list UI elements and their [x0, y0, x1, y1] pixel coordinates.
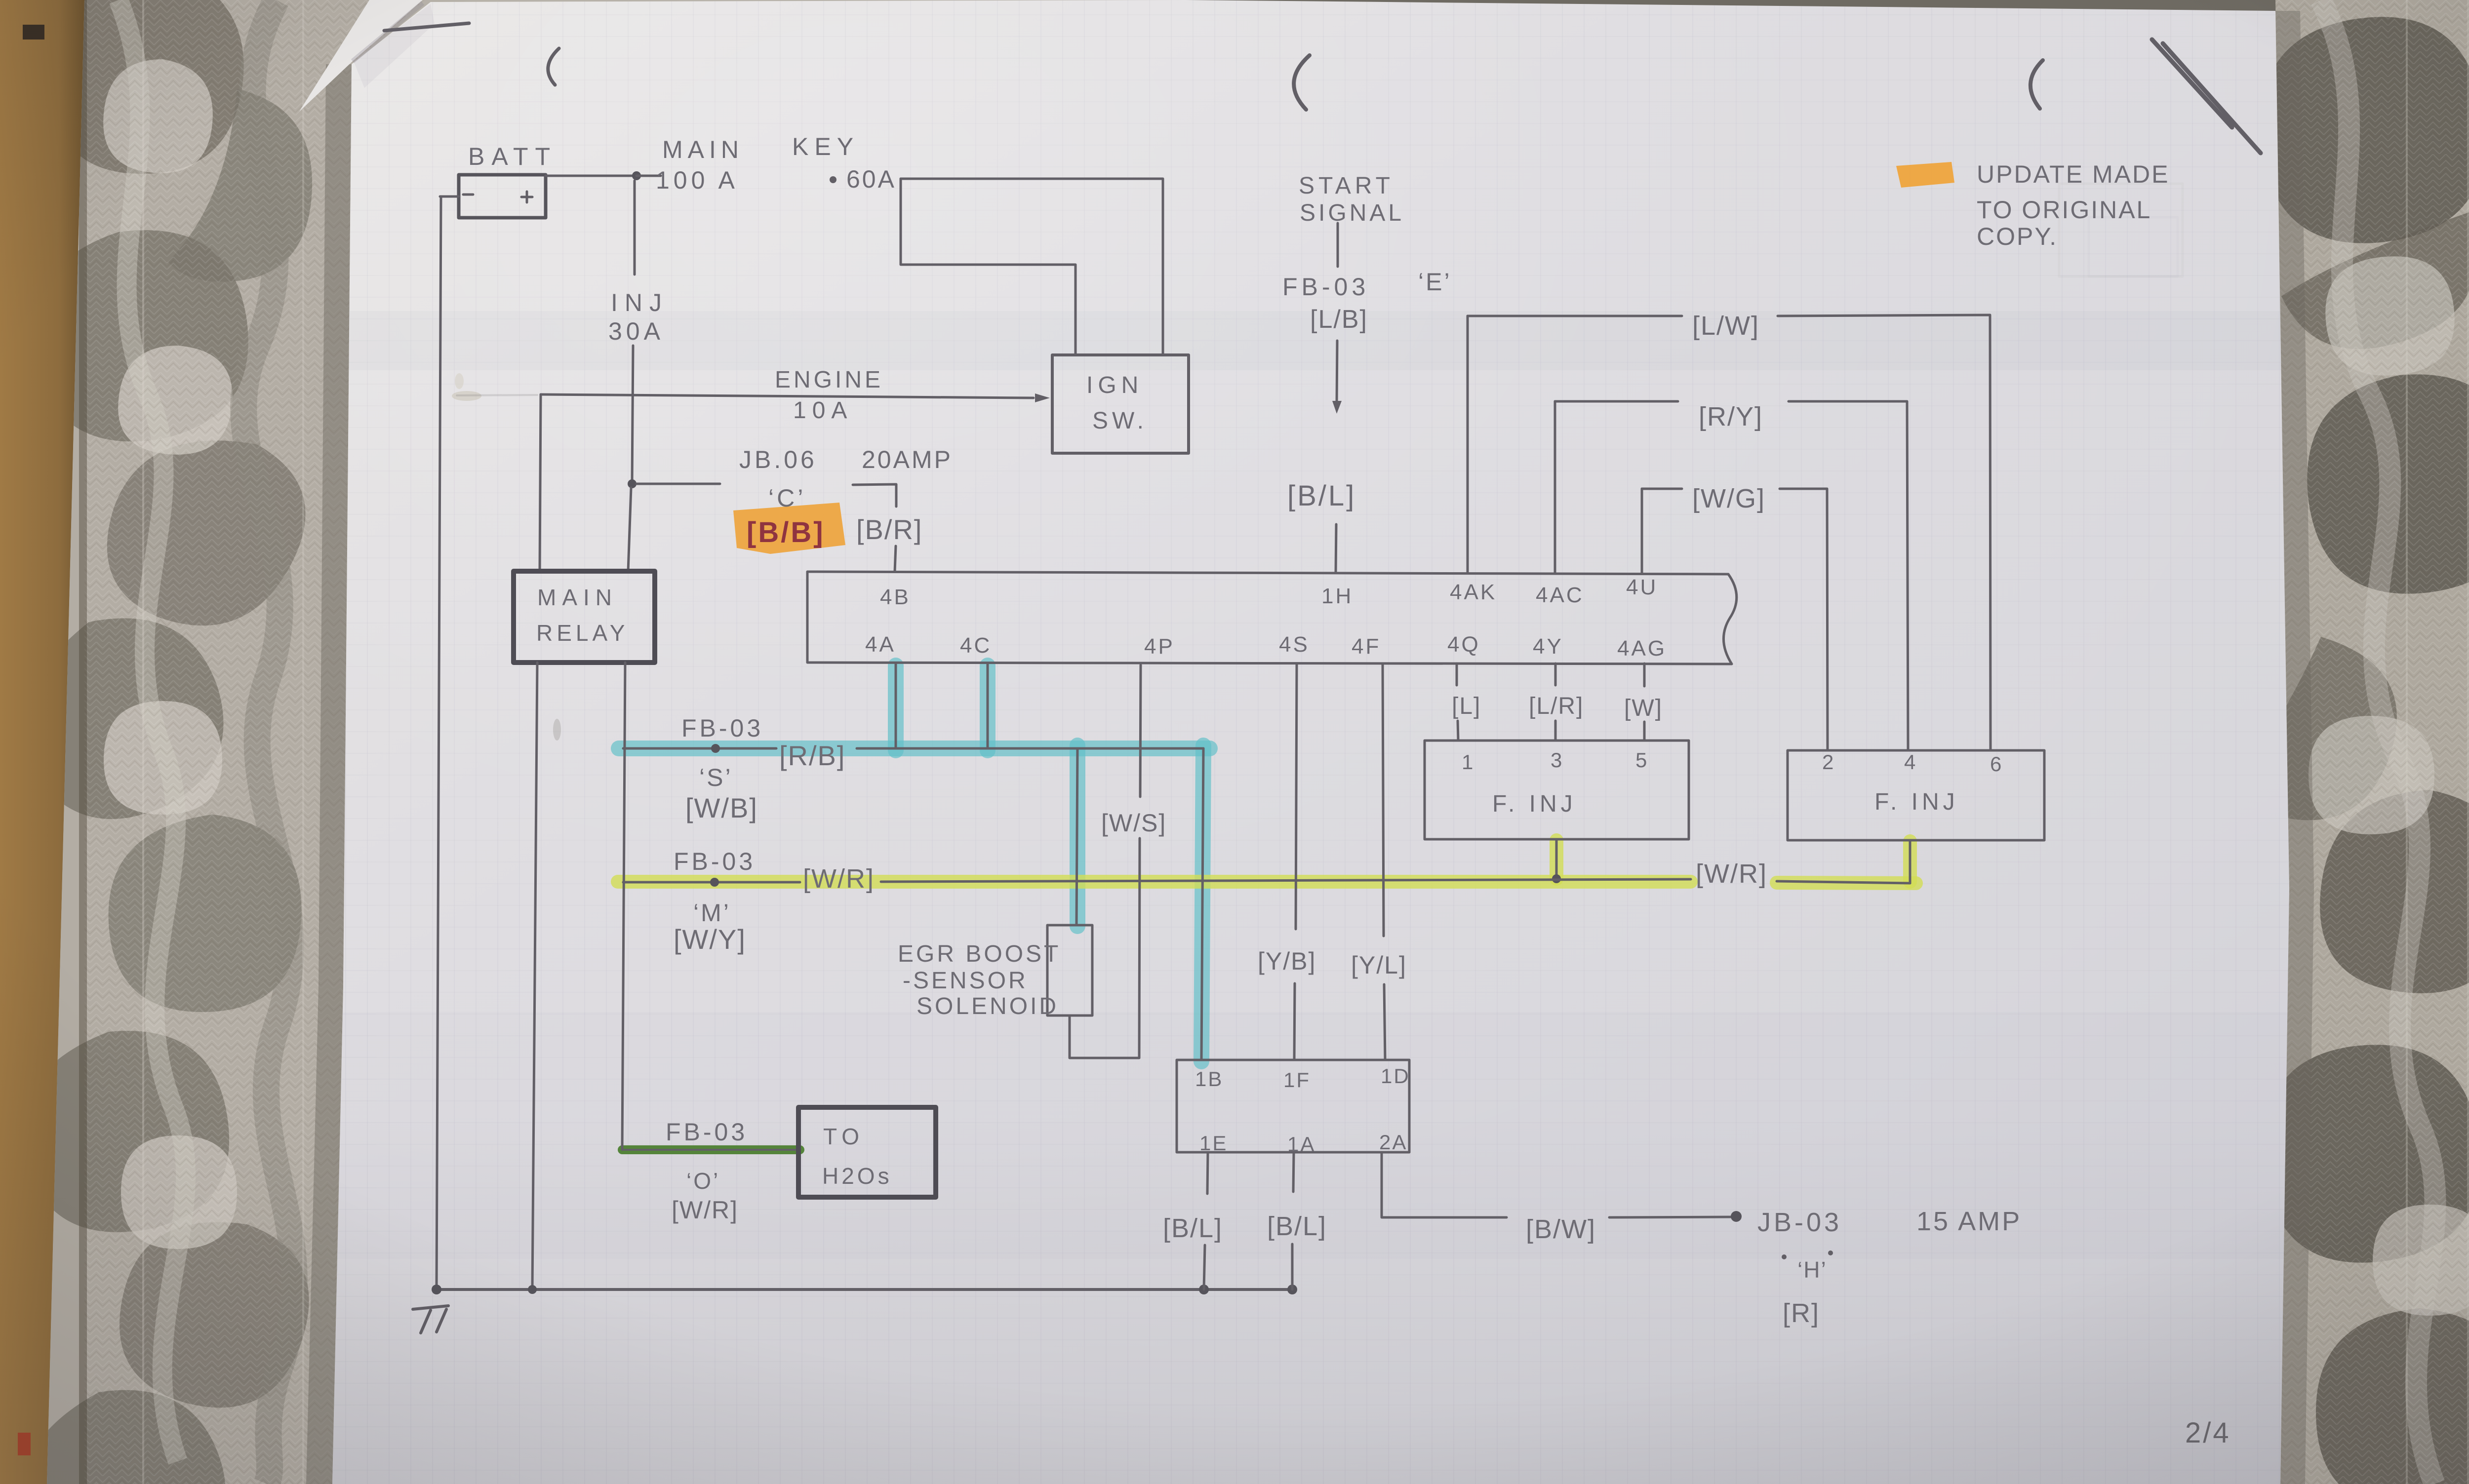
- wire JB-06 tap to fuse C: [637, 483, 720, 485]
- folded corner flap: [299, 0, 423, 112]
- node W/R at injector 1: [1552, 874, 1561, 883]
- net W/G: corner down to 4U: [1641, 489, 1643, 574]
- wire KEY branch to IGN SW left pin: [901, 179, 1075, 355]
- dots around 'H': [1782, 1254, 1787, 1259]
- highlight orange over [B/B]: [733, 503, 845, 554]
- arrowhead into IGN SW: [1035, 393, 1050, 402]
- registration paren mark 1: [548, 48, 559, 85]
- wire net S horizontal left: [623, 747, 776, 750]
- TO H2Os box: [798, 1107, 936, 1197]
- top fabric sliver: [1175, 0, 2277, 13]
- wire net S drop to 1B: [1201, 748, 1203, 1060]
- node FB-03 S pin: [711, 744, 720, 753]
- paper sheet: [332, 0, 2289, 1484]
- fuse JB-06 'C' bracket: [853, 484, 896, 498]
- net W/G horizontal right and drop to F.INJ2 pin 2: [1780, 489, 1828, 750]
- wire [L/R] to F.INJ pin 3: [1554, 721, 1557, 741]
- wire 4P lower to EGR return: [1070, 838, 1140, 1058]
- wire net M [W/R] mid: [881, 879, 1691, 882]
- wire fuse C down (above B/R label): [895, 498, 898, 507]
- IGN SW box: [1052, 355, 1189, 453]
- ground rail vertical (battery minus): [437, 196, 441, 1289]
- node JB-06 tap: [628, 479, 637, 488]
- wire [B/L] to connector 1H: [1336, 524, 1336, 573]
- node JB-03 H: [1731, 1211, 1742, 1222]
- battery minus terminal tick: [440, 195, 459, 198]
- wire 1A lower to ground: [1291, 1244, 1294, 1289]
- net L/W: corner down to 4AK: [1467, 316, 1469, 573]
- net W/G horizontal left: [1642, 488, 1682, 490]
- wire 4AG stub: [1643, 664, 1646, 686]
- node ground left end: [432, 1285, 441, 1294]
- erased ghost box: [2059, 184, 2183, 276]
- wire MAIN RELAY right leg (FB-03 feeder): [622, 663, 625, 1150]
- wire MAIN RELAY left leg to ground rail: [532, 663, 537, 1289]
- battery plus symbol: [521, 192, 532, 202]
- node ground at 1A (end): [1287, 1285, 1297, 1294]
- stray pencil dash top-left: [384, 23, 469, 31]
- wire [W] to F.INJ pin 5: [1643, 722, 1646, 741]
- wire ENGINE 10A faint stub: [457, 395, 537, 395]
- node MAIN feed: [632, 171, 641, 180]
- wire START SIGNAL lower with arrow: [1337, 341, 1337, 403]
- lighting bands: [296, 311, 2296, 370]
- wire [L] to F.INJ pin 1: [1458, 721, 1458, 741]
- wire KEY 60A to IGN SW right pin: [901, 179, 1163, 355]
- EGR solenoid box: [1047, 925, 1092, 1015]
- wire node to MAIN RELAY top right: [628, 488, 631, 571]
- ECU connector strip: [807, 572, 1737, 664]
- wire 1E lower to ground: [1204, 1245, 1205, 1289]
- wire START SIGNAL upper: [1337, 223, 1339, 267]
- wire F.INJ2 pin4 drop to W/R: [1909, 840, 1911, 883]
- wire 4Q stub: [1456, 664, 1458, 685]
- node ground at relay leg: [528, 1285, 537, 1294]
- wire B/W right: [1609, 1217, 1733, 1217]
- battery minus symbol: [463, 194, 473, 196]
- diagonal pen stroke top-right: [2152, 39, 2261, 153]
- net L/W horizontal left: [1468, 315, 1682, 317]
- fuse dot between 100A and 60A: [830, 176, 836, 183]
- wire node stub right: [637, 175, 661, 177]
- wire 2A to B/W left: [1382, 1152, 1507, 1217]
- wire net S drop to EGR solenoid: [1076, 748, 1077, 925]
- left fabric: [21, 0, 470, 1484]
- wire INJ 30A fuse drop (upper): [634, 181, 636, 274]
- wire fuse C down to connector 4B: [895, 546, 896, 572]
- wire 1E upper: [1207, 1152, 1208, 1194]
- wire 1A upper: [1293, 1152, 1294, 1192]
- fuel injector bank 1 box: [1425, 741, 1689, 839]
- net R/Y horizontal left: [1555, 400, 1678, 403]
- chassis ground symbol: [413, 1306, 448, 1333]
- wire ENGINE 10A row: [541, 394, 1034, 398]
- arrowhead START SIGNAL: [1332, 401, 1342, 414]
- wire 4Y stub: [1554, 664, 1557, 685]
- wire 4P upper: [1140, 665, 1141, 797]
- wire 4C stub (cyan): [987, 664, 989, 748]
- wire 4S upper: [1296, 664, 1297, 929]
- net L/W horizontal right and drop to F.INJ2 pin 6: [1778, 315, 1991, 750]
- wire battery to MAIN node: [546, 175, 635, 177]
- wire INJ 30A fuse drop (lower) to node C: [632, 346, 633, 483]
- wire 4F upper: [1383, 664, 1384, 936]
- wire net O green pencil: [622, 1149, 799, 1151]
- wire F.INJ1 pin3 drop to W/R: [1555, 839, 1558, 880]
- battery BATT: [459, 175, 546, 218]
- wire 4F lower to 1D: [1384, 984, 1385, 1060]
- wire net M [W/R] right: [1777, 881, 1910, 883]
- wire 4S lower to 1F: [1294, 983, 1295, 1060]
- fuel injector bank 2 box: [1788, 750, 2044, 840]
- legend orange swatch: [1896, 162, 1954, 188]
- wire net S horizontal right: [857, 747, 1203, 750]
- lower connector box 1B-2A: [1177, 1060, 1409, 1152]
- registration paren mark 3: [2031, 60, 2043, 109]
- registration paren mark 2: [1294, 55, 1310, 110]
- highlight green net 'O': [622, 1145, 800, 1154]
- node ground at 1E: [1199, 1285, 1209, 1294]
- wire net M [W/R] left: [623, 881, 800, 884]
- net R/Y: corner down to 4AC: [1554, 401, 1556, 574]
- node FB-03 M pin: [710, 878, 719, 887]
- wire ENGINE row corner down to MAIN RELAY top left: [540, 394, 541, 571]
- MAIN RELAY box: [514, 571, 655, 663]
- net R/Y horizontal right and drop to F.INJ2 pin 4: [1789, 401, 1908, 750]
- highlight yellow net 'M' [W/R]: [618, 840, 1916, 883]
- ground bottom bus wire: [437, 1288, 1293, 1291]
- left wood strip: [0, 0, 84, 1484]
- highlight cyan net 'S' (4A/4C to EGR and 1B): [619, 665, 1210, 1061]
- right fabric: [2232, 0, 2469, 1484]
- wire 4A stub (cyan): [895, 664, 897, 748]
